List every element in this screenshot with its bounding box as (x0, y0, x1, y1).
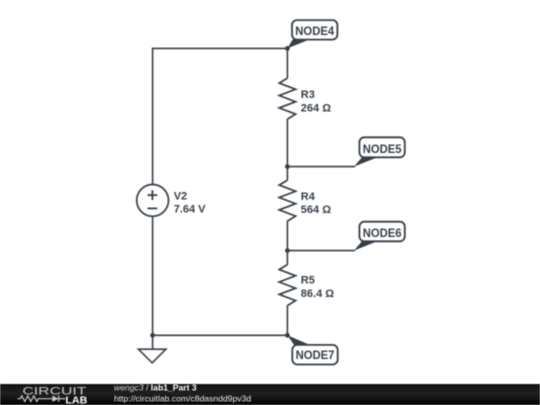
svg-text:7.64 V: 7.64 V (174, 203, 206, 215)
label R3 264 ohm (301, 89, 331, 114)
junction dot node NODE4 (285, 46, 290, 51)
resistor R5 (279, 265, 295, 306)
resistor R4 (279, 180, 295, 221)
node NODE5 callout (354, 137, 405, 166)
svg-text:R4: R4 (301, 191, 316, 203)
resistor R3 (279, 78, 295, 119)
svg-text:V2: V2 (174, 191, 187, 203)
wire right vertical segment NODE6 junction to R5 (286, 251, 288, 265)
wire left vertical lower (152, 216, 154, 335)
label R4 564 ohm (301, 191, 331, 216)
svg-text:R5: R5 (301, 275, 315, 287)
junction dot NODE7 left (ground) (150, 333, 155, 338)
wire right vertical segment NODE5 junction to R4 (286, 167, 288, 181)
ground (138, 335, 166, 363)
svg-text:NODE4: NODE4 (295, 24, 334, 38)
node NODE4 callout (287, 20, 337, 48)
svg-text:wengc3 / lab1_Part 3: wengc3 / lab1_Part 3 (114, 383, 197, 393)
wire right vertical segment R5 to bottom (286, 305, 288, 335)
wire top horizontal (153, 47, 288, 49)
footer logo CIRCUIT LAB (18, 386, 88, 405)
wire left vertical upper (152, 48, 154, 185)
voltage source V2 (137, 185, 169, 217)
svg-text:264 Ω: 264 Ω (301, 102, 331, 114)
wire right vertical segment R3 to NODE5 junction (286, 119, 288, 167)
label V2 7.64 V (174, 191, 206, 216)
wire bottom horizontal (153, 334, 288, 336)
svg-text:86.4 Ω: 86.4 Ω (301, 288, 334, 300)
svg-text:LAB: LAB (65, 395, 87, 405)
junction dot node NODE5 (285, 164, 290, 169)
junction dot node NODE6 (285, 248, 290, 253)
svg-text:R3: R3 (301, 89, 315, 101)
svg-text:NODE6: NODE6 (363, 226, 402, 240)
wire NODE6 horizontal (287, 250, 355, 252)
svg-text:http://circuitlab.com/c8dasndd: http://circuitlab.com/c8dasndd9pv3d (114, 393, 251, 403)
svg-text:NODE7: NODE7 (296, 348, 335, 362)
node NODE6 callout (354, 222, 405, 251)
svg-text:NODE5: NODE5 (363, 142, 402, 156)
wire right vertical segment NODE4 to R3 (286, 48, 288, 78)
svg-text:564 Ω: 564 Ω (301, 204, 331, 216)
label R5 86.4 ohm (301, 275, 334, 300)
wire NODE5 horizontal (287, 166, 355, 168)
footer bar (0, 384, 540, 405)
wire right vertical segment R4 to NODE6 junction (286, 221, 288, 251)
node NODE7 callout (287, 335, 337, 364)
junction dot node NODE7 right (285, 333, 290, 338)
